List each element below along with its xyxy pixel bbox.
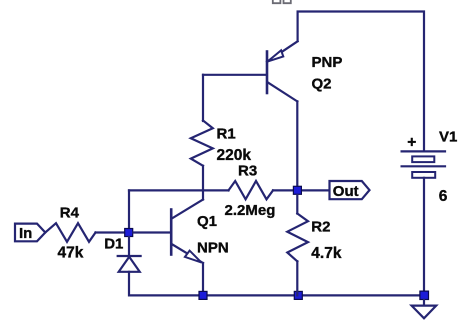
svg-text:In: In [19, 225, 32, 242]
node junction [420, 291, 429, 299]
wire [129, 272, 424, 296]
resistor R3 [229, 181, 274, 199]
svg-text:2.2Meg: 2.2Meg [225, 202, 276, 219]
battery V1 [402, 151, 445, 177]
clipped text fragment [273, 0, 291, 3]
wire [96, 231, 126, 233]
svg-text:+: + [407, 134, 416, 151]
svg-text:Q2: Q2 [312, 76, 332, 93]
svg-text:220k: 220k [217, 147, 252, 164]
svg-text:PNP: PNP [312, 54, 343, 71]
wire [202, 190, 204, 199]
resistor R4 [45, 223, 95, 242]
svg-text:6: 6 [439, 188, 448, 205]
node junction [125, 229, 133, 237]
svg-text:R2: R2 [311, 219, 330, 236]
wire [202, 166, 204, 191]
wire [128, 190, 130, 228]
wire [203, 74, 267, 76]
port In [15, 224, 45, 242]
svg-text:V1: V1 [439, 128, 457, 145]
transistor Q2 [267, 41, 298, 101]
wire [134, 231, 171, 233]
wire [296, 101, 298, 186]
wire [202, 263, 204, 295]
diode D1 [118, 237, 141, 272]
svg-text:R1: R1 [217, 125, 236, 142]
resistor R1 [191, 121, 213, 166]
node junction [293, 186, 301, 194]
svg-text:D1: D1 [104, 236, 123, 253]
svg-text:NPN: NPN [197, 240, 229, 257]
svg-text:4.7k: 4.7k [311, 245, 342, 262]
wire [129, 189, 229, 191]
wire [423, 178, 425, 291]
svg-text:R4: R4 [60, 205, 80, 222]
svg-text:Q1: Q1 [197, 213, 217, 230]
wire [423, 300, 425, 306]
wire [298, 12, 424, 152]
svg-text:47k: 47k [58, 244, 84, 261]
svg-text:Out: Out [333, 183, 359, 200]
node junction [199, 291, 207, 299]
transistor Q1 [171, 200, 203, 264]
wire [202, 75, 204, 121]
ground [412, 306, 437, 319]
node junction [294, 291, 302, 299]
wire [273, 189, 330, 191]
resistor R2 [287, 195, 308, 295]
svg-text:R3: R3 [238, 163, 257, 180]
port Out [330, 181, 370, 200]
